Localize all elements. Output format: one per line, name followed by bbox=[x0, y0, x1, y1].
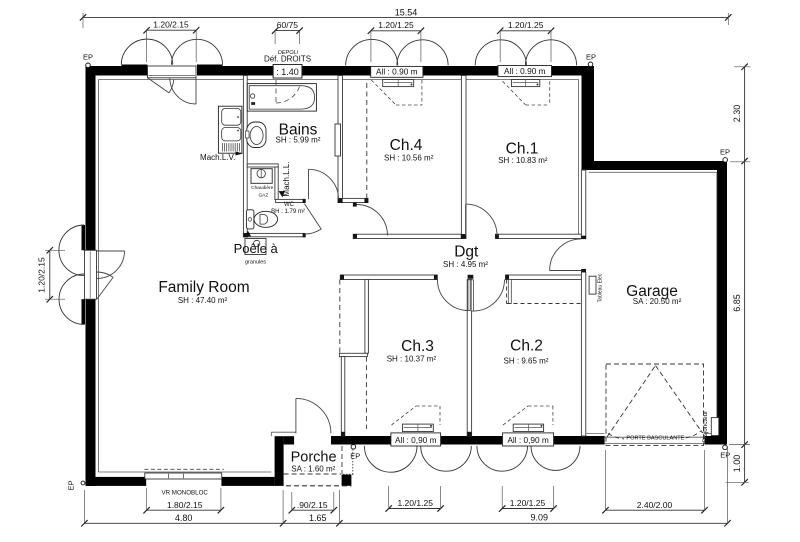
boiler chaudiere gaz bbox=[251, 169, 272, 184]
svg-text:Disjoncteur: Disjoncteur bbox=[702, 411, 709, 443]
face lines garage interior bbox=[589, 171, 717, 173]
window west exterior arcs bbox=[59, 225, 84, 276]
face line left interior bbox=[98, 80, 100, 473]
dim bottom 4.80 / 1.65 / 9.09 bbox=[84, 522, 727, 524]
wall garage top bbox=[582, 161, 728, 170]
dim right 1.00 bbox=[744, 445, 746, 483]
svg-text:Ch.3: Ch.3 bbox=[401, 338, 434, 355]
label window ch1 bbox=[498, 66, 552, 77]
EP garage NE bbox=[723, 158, 728, 163]
svg-text:SH : 10.56 m²: SH : 10.56 m² bbox=[384, 154, 434, 163]
label window ch4 bbox=[371, 66, 423, 77]
svg-text:Dgt: Dgt bbox=[454, 244, 479, 261]
EP porch bbox=[351, 445, 356, 450]
svg-text:.90/2.15: .90/2.15 bbox=[297, 500, 328, 510]
door ch3 arc bbox=[437, 280, 468, 311]
dim ch2 1.20/1.25 bbox=[502, 508, 553, 510]
svg-text:Family Room: Family Room bbox=[158, 279, 249, 296]
svg-text:1.80/2.15: 1.80/2.15 bbox=[167, 500, 203, 510]
bains sink bbox=[247, 122, 266, 148]
wall wc north bbox=[276, 199, 306, 202]
dim window 1.20/2.15 top bbox=[147, 29, 197, 31]
svg-text:4.80: 4.80 bbox=[175, 513, 193, 523]
svg-text:SH : 4.95 m²: SH : 4.95 m² bbox=[443, 260, 488, 269]
wall wc south bbox=[243, 233, 305, 236]
wall exterior right upper bbox=[582, 66, 595, 170]
svg-text:SH : 10.37 m²: SH : 10.37 m² bbox=[387, 355, 437, 364]
svg-text:1.65: 1.65 bbox=[309, 513, 327, 523]
svg-text:EP: EP bbox=[350, 451, 360, 460]
svg-text:Mach.L.L.: Mach.L.L. bbox=[282, 161, 291, 196]
door dgt-garage arc bbox=[550, 239, 582, 271]
dim right 2.30 bbox=[744, 67, 746, 161]
label window depoli 1.40 bbox=[273, 65, 302, 79]
dim window ch1 1.20/1.25 bbox=[500, 30, 551, 32]
dim overall 15.54 bbox=[83, 16, 728, 18]
svg-text:Poêle à: Poêle à bbox=[234, 241, 279, 256]
svg-text:1.20/1.25: 1.20/1.25 bbox=[397, 498, 433, 508]
svg-text:All : 0,90 m: All : 0,90 m bbox=[507, 435, 549, 445]
wall boiler nook top bbox=[247, 164, 278, 167]
svg-text:SA : 20.50 m²: SA : 20.50 m² bbox=[633, 297, 682, 306]
door ch3 leaf bbox=[468, 280, 470, 311]
wall corridor north east part bbox=[495, 234, 581, 238]
pellet stove poele bbox=[245, 239, 266, 255]
wall garage bottom bbox=[705, 436, 728, 445]
svg-text:2.40/2.00: 2.40/2.00 bbox=[637, 500, 673, 510]
wall corridor south west part bbox=[340, 275, 437, 280]
label window ch3 bbox=[391, 433, 441, 446]
svg-text:15.54: 15.54 bbox=[395, 8, 418, 18]
EP top-right bbox=[588, 62, 593, 67]
window ch2 south arcs bbox=[477, 446, 528, 471]
wall south family room bbox=[86, 477, 147, 486]
window family north exterior arcs bbox=[121, 39, 172, 65]
svg-text:1.20/1.25: 1.20/1.25 bbox=[508, 20, 544, 30]
wall house/garage upper bbox=[581, 170, 585, 239]
svg-text:EP: EP bbox=[586, 53, 596, 62]
window ch3 south arcs bbox=[364, 446, 417, 472]
wall ch3 west upper bbox=[365, 280, 369, 354]
dashed line ch3 west lower bbox=[365, 357, 367, 429]
garage door threshold bbox=[605, 436, 705, 438]
svg-text:1.20/1.25: 1.20/1.25 bbox=[378, 20, 414, 30]
bathtub bbox=[247, 84, 316, 112]
EP bottom-left bbox=[81, 481, 85, 485]
svg-text:All : 0.90 m: All : 0.90 m bbox=[376, 67, 418, 77]
svg-text:Ch.2: Ch.2 bbox=[510, 338, 543, 355]
svg-text:SH : 47.40 m²: SH : 47.40 m² bbox=[178, 296, 228, 305]
wall ch4/ch1 divider bbox=[461, 76, 466, 239]
face line right interior bbox=[578, 80, 580, 235]
dim garage 2.40/2.00 bbox=[606, 509, 705, 511]
svg-text:1.20/1.25: 1.20/1.25 bbox=[510, 498, 546, 508]
window west interior leaves bbox=[97, 250, 125, 252]
window family north (1.20/2.15) leaves bbox=[122, 65, 148, 76]
disjoncteur box bbox=[711, 418, 719, 436]
wall corridor north west part bbox=[353, 234, 463, 238]
window ch2 sill bbox=[513, 424, 543, 431]
svg-text:: 1.40: : 1.40 bbox=[276, 67, 299, 77]
wall bains east bbox=[338, 76, 343, 203]
arrow wc corner bbox=[245, 231, 251, 237]
wall house/garage lower bbox=[581, 272, 585, 436]
svg-text:granules: granules bbox=[245, 260, 266, 266]
svg-text:60/75: 60/75 bbox=[277, 20, 299, 30]
radiator bains east wall bbox=[335, 124, 341, 156]
svg-text:Chaudière: Chaudière bbox=[251, 185, 273, 191]
svg-text:9.09: 9.09 bbox=[531, 513, 549, 523]
face line porch step bbox=[271, 431, 296, 433]
door ch4 bbox=[357, 205, 388, 236]
toilet wc bbox=[246, 210, 254, 229]
face line family south interior bbox=[99, 471, 272, 473]
svg-text:Déf. DROITS: Déf. DROITS bbox=[264, 54, 311, 63]
wall ch3/ch2 divider bbox=[467, 280, 471, 437]
EP garage SE bbox=[723, 445, 728, 450]
svg-text:PORTE BASCULANTE: PORTE BASCULANTE bbox=[626, 435, 684, 441]
wall porch north stub bbox=[284, 436, 295, 444]
porte basculante dashed box bbox=[606, 364, 704, 445]
dashed placard ch2 bbox=[506, 280, 508, 304]
window ch1 dashed swing bbox=[503, 81, 526, 105]
window ch3 sill bbox=[403, 424, 434, 431]
window ch4 north arcs bbox=[346, 39, 398, 65]
svg-text:SH : 10.83 m²: SH : 10.83 m² bbox=[498, 156, 548, 165]
EP top-left bbox=[86, 63, 91, 68]
svg-text:Tableau Elec: Tableau Elec bbox=[598, 273, 604, 302]
door porch entry arc bbox=[296, 398, 331, 433]
door ch2 leaf open against placard bbox=[508, 280, 511, 304]
window ch1 north arcs bbox=[475, 40, 526, 66]
porch post SE bbox=[342, 475, 352, 486]
wall bains south stub bbox=[338, 198, 368, 202]
wall exterior left bbox=[86, 66, 96, 250]
svg-text:1.00: 1.00 bbox=[732, 455, 742, 473]
window ch4 sill bbox=[383, 80, 414, 87]
svg-text:EP: EP bbox=[67, 480, 76, 490]
dashed line family/ch3 upper bbox=[339, 280, 341, 354]
svg-text:6.85: 6.85 bbox=[732, 294, 742, 312]
dashed line ch4 west bbox=[366, 83, 368, 198]
kitchen unit Mach.L.V. bbox=[218, 106, 242, 153]
tableau electrique bbox=[589, 276, 596, 294]
door bains bbox=[308, 169, 310, 199]
wall exterior top bbox=[86, 66, 122, 76]
svg-text:BH : 1.79 m²: BH : 1.79 m² bbox=[271, 209, 305, 215]
window ch1 sill bbox=[511, 80, 539, 87]
wall corridor south east part bbox=[506, 275, 582, 280]
window ch4 dashed swing bbox=[371, 80, 396, 105]
svg-text:All : 0.90 m: All : 0.90 m bbox=[504, 66, 546, 76]
window ch3 dashed swing bbox=[392, 406, 417, 425]
svg-text:All : 0,90 m: All : 0,90 m bbox=[395, 435, 437, 445]
wall kitchen/bains spine bbox=[243, 76, 247, 237]
window family south shutter dashed bbox=[144, 468, 224, 470]
porch dashed boundary bbox=[284, 473, 341, 475]
wall garage right bbox=[717, 161, 727, 445]
svg-text:EP: EP bbox=[720, 451, 730, 460]
window bains frosted (60/75) bbox=[273, 65, 302, 79]
window family north frame bbox=[148, 66, 197, 78]
wall ch3 west lower bbox=[341, 357, 345, 436]
dim ch3 1.20/1.25 bbox=[389, 508, 441, 510]
svg-text:EP: EP bbox=[83, 52, 93, 61]
door ch2 arc bbox=[473, 280, 505, 312]
svg-text:1.20/2.15: 1.20/2.15 bbox=[153, 20, 189, 30]
svg-text:Mach.L.V.: Mach.L.V. bbox=[200, 153, 235, 162]
dim window west 1.20/2.15 bbox=[49, 250, 51, 299]
door porch entry leaf bbox=[295, 398, 297, 433]
dim window ch4 1.20/1.25 bbox=[371, 30, 421, 32]
door wc bbox=[305, 204, 322, 230]
arrow mach ll bbox=[279, 191, 285, 197]
wall ch3 west connector bbox=[339, 353, 367, 356]
wall boiler nook east bbox=[275, 167, 278, 200]
face line top interior bbox=[99, 79, 579, 81]
window family south VR MONOBLOC bbox=[146, 477, 221, 486]
svg-text:EP: EP bbox=[720, 148, 730, 157]
window family north interior door leaves bbox=[148, 78, 170, 93]
window bains frosted dashed swing bbox=[275, 80, 277, 103]
svg-text:GAZ: GAZ bbox=[258, 192, 268, 198]
svg-text:SH : 5.99 m²: SH : 5.99 m² bbox=[276, 136, 321, 145]
door ch2 leaf bbox=[471, 280, 473, 311]
dim 1.80/2.15 bbox=[147, 509, 221, 511]
door dgt-garage leaf bbox=[550, 270, 582, 272]
label window ch2 bbox=[503, 433, 554, 446]
svg-text:VR MONOBLOC: VR MONOBLOC bbox=[161, 490, 208, 497]
window west frame bbox=[85, 250, 97, 299]
svg-text:Ch.4: Ch.4 bbox=[390, 137, 423, 154]
svg-text:WC: WC bbox=[284, 202, 295, 208]
svg-text:1.20/2.15: 1.20/2.15 bbox=[37, 257, 47, 293]
dim 90/2.15 bbox=[292, 509, 334, 511]
dim window 60/75 bbox=[275, 30, 300, 32]
wall porch west bbox=[275, 436, 284, 486]
window ch2 dashed swing bbox=[503, 406, 528, 425]
dim right 6.85 bbox=[744, 161, 746, 445]
svg-text:SA : 1.60 m²: SA : 1.60 m² bbox=[291, 465, 335, 474]
wall end caps bbox=[303, 199, 306, 203]
window west (1.20/2.15) leaves bbox=[82, 225, 86, 250]
svg-text:2.30: 2.30 bbox=[732, 105, 742, 123]
arrow mach lv bbox=[236, 152, 244, 156]
wall south (bedrooms) bbox=[331, 436, 391, 445]
door ch1 bbox=[465, 204, 467, 235]
svg-text:Porche: Porche bbox=[291, 450, 337, 466]
svg-text:SH : 9.65 m²: SH : 9.65 m² bbox=[504, 357, 549, 366]
